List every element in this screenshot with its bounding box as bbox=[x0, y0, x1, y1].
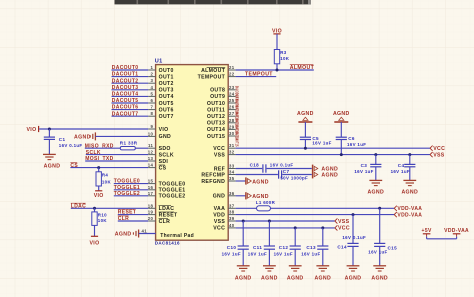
resistor R3 bbox=[274, 34, 279, 70]
svg-text:VCC: VCC bbox=[213, 146, 225, 152]
svg-text:21: 21 bbox=[229, 65, 235, 70]
wire TOGGLE1 bbox=[114, 189, 148, 191]
svg-text:28: 28 bbox=[229, 118, 235, 123]
svg-text:36: 36 bbox=[229, 191, 235, 196]
svg-text:2: 2 bbox=[150, 72, 153, 77]
wire TOGGLE0 bbox=[114, 183, 148, 185]
svg-text:REFGND: REFGND bbox=[201, 179, 225, 185]
svg-text:OUT8: OUT8 bbox=[210, 88, 225, 94]
svg-text:VCC: VCC bbox=[213, 226, 225, 232]
wire VSS (pin 32) bbox=[236, 154, 430, 156]
node CLR bbox=[118, 216, 129, 222]
svg-text:9: 9 bbox=[150, 124, 153, 129]
svg-text:DACOUT15: DACOUT15 bbox=[235, 132, 240, 147]
ground AGND at C18 bbox=[313, 165, 318, 179]
svg-text:AGND: AGND bbox=[252, 194, 269, 200]
C12 labels bbox=[274, 245, 293, 256]
node RESET bbox=[118, 210, 136, 216]
svg-text:R3: R3 bbox=[280, 50, 287, 55]
node VCC (right) bbox=[430, 146, 445, 152]
node TOGGLE2 bbox=[114, 191, 140, 197]
AGND label below C10 bbox=[235, 275, 252, 281]
svg-text:C4: C4 bbox=[398, 163, 405, 168]
svg-text:16V 1uF: 16V 1uF bbox=[347, 142, 366, 147]
ground AGND at C7 bbox=[314, 172, 318, 176]
svg-text:OUT4: OUT4 bbox=[159, 94, 174, 100]
AGND label above C6 bbox=[333, 111, 350, 117]
svg-text:25: 25 bbox=[229, 98, 235, 103]
node VSS (mid) bbox=[335, 218, 350, 224]
svg-text:REFCMP: REFCMP bbox=[201, 172, 225, 178]
junction C6 on VSS bbox=[340, 153, 343, 156]
C5 labels bbox=[312, 136, 331, 146]
wire DACOUT5 bbox=[112, 102, 149, 104]
svg-text:DACOUT1: DACOUT1 bbox=[112, 72, 139, 78]
svg-text:4: 4 bbox=[150, 85, 153, 90]
svg-text:10: 10 bbox=[148, 131, 154, 136]
wire DACOUT7 bbox=[112, 115, 149, 117]
node VCC (mid) bbox=[335, 225, 350, 231]
svg-text:AGND: AGND bbox=[401, 189, 418, 195]
junction C15 tap bbox=[378, 207, 381, 210]
C4 labels bbox=[391, 163, 410, 174]
wire REF (pin 33) bbox=[236, 168, 263, 170]
node MISO_RXD bbox=[85, 144, 114, 150]
junction C13 tap bbox=[321, 226, 324, 229]
AGND label pin 10 bbox=[74, 135, 91, 141]
wire RESET bbox=[118, 214, 148, 216]
svg-text:AGND: AGND bbox=[367, 189, 384, 195]
svg-text:AGND: AGND bbox=[321, 172, 338, 178]
svg-text:DACOUT0: DACOUT0 bbox=[112, 65, 139, 71]
AGND label pin 41 bbox=[115, 231, 132, 237]
power port VIO (top) bbox=[272, 28, 282, 34]
svg-text:ALMOUT: ALMOUT bbox=[201, 68, 226, 74]
capacitor C7 (series to AGND) bbox=[279, 170, 312, 178]
svg-text:20: 20 bbox=[148, 216, 154, 221]
svg-text:DACOUT7: DACOUT7 bbox=[112, 111, 139, 117]
AGND label above C5 bbox=[297, 111, 314, 117]
svg-text:26: 26 bbox=[229, 105, 235, 110]
junction R3 bottom bbox=[276, 69, 279, 72]
svg-text:38: 38 bbox=[229, 210, 235, 215]
U1 left pin stubs and numbers bbox=[142, 65, 156, 234]
svg-text:OUT2: OUT2 bbox=[159, 81, 174, 87]
svg-text:GND: GND bbox=[213, 194, 225, 200]
junction C1 tap bbox=[48, 128, 51, 131]
svg-text:R1 33R: R1 33R bbox=[120, 140, 138, 145]
capacitor C1 bbox=[44, 129, 55, 154]
svg-text:VSS: VSS bbox=[433, 152, 445, 158]
capacitor C6 bbox=[334, 117, 348, 154]
svg-text:11: 11 bbox=[148, 143, 154, 148]
node DACOUT4 bbox=[112, 92, 139, 98]
wire TOGGLE2 bbox=[114, 195, 148, 197]
node CS bbox=[70, 163, 78, 169]
svg-text:AGND: AGND bbox=[371, 275, 388, 281]
node DACOUT0 bbox=[112, 65, 139, 71]
svg-text:16V 1uF: 16V 1uF bbox=[312, 140, 331, 145]
svg-text:33: 33 bbox=[229, 164, 235, 169]
resistor R1 bbox=[120, 147, 135, 150]
R3 labels bbox=[280, 50, 290, 61]
wire GND (pin 36) bbox=[236, 195, 246, 197]
C6 labels bbox=[347, 136, 366, 147]
junction C12 tap bbox=[294, 226, 297, 229]
svg-text:TOGGLE2: TOGGLE2 bbox=[159, 194, 186, 200]
svg-text:TEMPOUT: TEMPOUT bbox=[198, 74, 226, 80]
capacitor C13 bbox=[316, 228, 329, 271]
svg-text:OUT9: OUT9 bbox=[210, 94, 225, 100]
wire VCC (pin 40) bbox=[236, 227, 335, 229]
AGND label below C12 bbox=[287, 275, 304, 281]
capacitor C3 bbox=[369, 153, 382, 186]
C11 labels bbox=[248, 245, 267, 256]
node DACOUT2 bbox=[112, 78, 139, 84]
U1 left pin names bbox=[159, 68, 186, 225]
svg-text:DACOUT4: DACOUT4 bbox=[112, 92, 139, 98]
svg-text:13: 13 bbox=[148, 156, 154, 161]
svg-text:19: 19 bbox=[148, 210, 154, 215]
svg-text:16: 16 bbox=[148, 185, 154, 190]
svg-text:VIO: VIO bbox=[90, 241, 100, 247]
svg-text:7: 7 bbox=[150, 105, 153, 110]
svg-text:50V 1000pF: 50V 1000pF bbox=[280, 176, 308, 181]
C15 labels bbox=[368, 245, 397, 254]
toolbar fragment (top edge) bbox=[115, 0, 312, 4]
svg-text:C10: C10 bbox=[227, 245, 237, 250]
svg-text:32: 32 bbox=[229, 150, 235, 155]
wire DACOUT2 bbox=[112, 82, 149, 84]
svg-text:OUT6: OUT6 bbox=[159, 107, 174, 113]
svg-text:C12: C12 bbox=[279, 245, 289, 250]
U1 right pin names bbox=[198, 67, 226, 231]
node TOGGLE0 bbox=[114, 179, 140, 185]
C7 labels bbox=[280, 169, 308, 180]
node VDD-VAA (on VAA) bbox=[394, 206, 422, 212]
ground AGND at pin 36 bbox=[246, 192, 251, 199]
power port VIO (left) bbox=[27, 126, 39, 133]
svg-text:C6: C6 bbox=[348, 136, 355, 141]
wire DACOUT0 bbox=[112, 69, 149, 71]
R10 labels bbox=[98, 212, 108, 223]
svg-text:RESET: RESET bbox=[159, 212, 178, 218]
wire VAA (pin 37) bbox=[236, 207, 395, 209]
svg-text:15: 15 bbox=[148, 179, 154, 184]
AGND label below C14 bbox=[345, 275, 362, 281]
svg-text:18: 18 bbox=[148, 203, 154, 208]
AGND label below C4 bbox=[401, 189, 418, 195]
wire LDAC bbox=[71, 207, 148, 209]
ground AGND at pin 35 bbox=[246, 177, 251, 184]
svg-text:17: 17 bbox=[148, 191, 154, 196]
svg-text:VCC: VCC bbox=[338, 226, 350, 232]
svg-text:AGND: AGND bbox=[333, 111, 350, 117]
svg-text:SDO: SDO bbox=[159, 146, 171, 152]
svg-text:40: 40 bbox=[229, 223, 235, 228]
C13 labels bbox=[301, 245, 320, 256]
svg-text:16V 1uF: 16V 1uF bbox=[274, 252, 293, 257]
wire SCLK bbox=[86, 154, 148, 156]
svg-text:3: 3 bbox=[150, 78, 153, 83]
svg-text:VIO: VIO bbox=[27, 127, 37, 133]
power port +5V bbox=[422, 228, 432, 236]
node ALMOUT bbox=[290, 65, 315, 71]
svg-text:OUT0: OUT0 bbox=[159, 68, 174, 74]
svg-text:C7: C7 bbox=[283, 169, 290, 174]
node MOSI_TXD bbox=[85, 156, 113, 162]
C18 labels bbox=[250, 162, 294, 167]
wire VCC (pin 31) bbox=[236, 147, 430, 149]
node DACOUT5 bbox=[112, 98, 139, 104]
svg-text:OUT14: OUT14 bbox=[207, 127, 225, 133]
U1 right pin stubs and numbers bbox=[228, 65, 235, 228]
svg-text:16V 1uF: 16V 1uF bbox=[354, 169, 373, 174]
capacitor C11 bbox=[263, 221, 276, 271]
svg-text:R4: R4 bbox=[102, 172, 109, 177]
svg-text:16V 0.1uF: 16V 0.1uF bbox=[59, 143, 83, 148]
svg-text:U1: U1 bbox=[155, 59, 163, 65]
svg-text:VDD-VAA: VDD-VAA bbox=[397, 212, 422, 218]
svg-text:OUT11: OUT11 bbox=[207, 107, 225, 113]
svg-text:VIO: VIO bbox=[94, 193, 104, 199]
svg-text:C13: C13 bbox=[306, 245, 316, 250]
capacitor C5 bbox=[298, 117, 312, 148]
wire +5V to VDD-VAA bbox=[427, 237, 457, 239]
svg-text:AGND: AGND bbox=[235, 275, 252, 281]
svg-text:10K: 10K bbox=[102, 180, 112, 185]
svg-text:DACOUT6: DACOUT6 bbox=[112, 105, 139, 111]
svg-text:10K: 10K bbox=[280, 56, 290, 61]
svg-text:39: 39 bbox=[229, 216, 235, 221]
AGND label at C18 bbox=[321, 166, 338, 172]
svg-text:DAC81416: DAC81416 bbox=[155, 241, 180, 246]
C3 labels bbox=[354, 163, 373, 174]
wire VSS (pin 39) bbox=[236, 220, 335, 222]
svg-text:16V 1uF: 16V 1uF bbox=[248, 252, 267, 257]
junction R10 top bbox=[93, 207, 96, 210]
svg-text:CS: CS bbox=[159, 165, 167, 171]
resistor R10 pull-up bbox=[92, 208, 97, 236]
junction R4 top bbox=[97, 166, 100, 169]
svg-text:OUT3: OUT3 bbox=[159, 88, 174, 94]
svg-text:6: 6 bbox=[150, 98, 153, 103]
svg-text:27: 27 bbox=[229, 111, 235, 116]
svg-text:16V 0.1uF: 16V 0.1uF bbox=[342, 235, 366, 240]
capacitor C12 bbox=[289, 228, 302, 271]
svg-text:Thermal Pad: Thermal Pad bbox=[160, 233, 194, 239]
svg-text:5: 5 bbox=[150, 91, 153, 96]
svg-text:R10: R10 bbox=[98, 212, 107, 217]
AGND label below C1 bbox=[44, 163, 61, 169]
svg-text:OUT15: OUT15 bbox=[207, 134, 225, 140]
svg-text:DACOUT5: DACOUT5 bbox=[112, 98, 139, 104]
ground AGND at thermal pad pin 41 bbox=[133, 230, 155, 238]
svg-text:VSS: VSS bbox=[214, 219, 226, 225]
wire CS bbox=[70, 167, 148, 169]
AGND label below C11 bbox=[261, 275, 278, 281]
capacitor C4 bbox=[403, 153, 416, 186]
wire MISO_RXD bbox=[85, 147, 148, 149]
svg-text:VAA: VAA bbox=[214, 206, 226, 212]
svg-text:VDD-VAA: VDD-VAA bbox=[397, 206, 422, 212]
svg-text:C18: C18 bbox=[250, 163, 260, 168]
AGND label below C13 bbox=[314, 275, 331, 281]
svg-text:OUT7: OUT7 bbox=[159, 114, 174, 120]
svg-text:L1 600R: L1 600R bbox=[256, 200, 276, 205]
wire REFGND (pin 35) bbox=[236, 180, 246, 182]
junction C5 on VCC bbox=[304, 147, 307, 150]
svg-text:AGND: AGND bbox=[314, 275, 331, 281]
svg-text:ALMOUT: ALMOUT bbox=[290, 65, 315, 71]
svg-text:OUT5: OUT5 bbox=[159, 101, 174, 107]
wire ALMOUT bbox=[236, 69, 314, 71]
wire DACOUT1 bbox=[112, 76, 149, 78]
node LDAC bbox=[71, 203, 86, 209]
svg-text:29: 29 bbox=[229, 124, 235, 129]
svg-text:14: 14 bbox=[148, 163, 154, 168]
node TEMPOUT bbox=[245, 72, 273, 78]
power port VDD-VAA (bottom right) bbox=[444, 228, 469, 236]
value DAC81416 bbox=[155, 241, 180, 246]
svg-text:C11: C11 bbox=[253, 245, 262, 250]
C1 labels bbox=[59, 137, 83, 148]
svg-text:C15: C15 bbox=[388, 245, 398, 250]
junction C10 tap bbox=[242, 220, 245, 223]
ground AGND at pin 10 bbox=[90, 132, 148, 140]
power port VIO below R4 bbox=[94, 191, 104, 199]
svg-text:OUT12: OUT12 bbox=[207, 114, 225, 120]
svg-text:AGND: AGND bbox=[297, 111, 314, 117]
svg-text:VCC: VCC bbox=[433, 146, 445, 152]
svg-text:C1: C1 bbox=[59, 137, 66, 142]
op-amp U1 DAC81416 body bbox=[156, 65, 229, 241]
svg-text:CLR: CLR bbox=[159, 219, 171, 225]
node DACOUT7 bbox=[112, 111, 139, 117]
node SCLK bbox=[86, 150, 101, 156]
AGND label at C7 bbox=[321, 172, 338, 178]
svg-text:AGND: AGND bbox=[287, 275, 304, 281]
svg-text:37: 37 bbox=[229, 203, 235, 208]
svg-text:31: 31 bbox=[229, 143, 235, 148]
wire VDD (pin 38) bbox=[236, 214, 395, 216]
svg-text:12: 12 bbox=[148, 150, 154, 155]
svg-text:22: 22 bbox=[229, 72, 235, 77]
svg-text:16V 1uF: 16V 1uF bbox=[301, 252, 320, 257]
svg-text:23: 23 bbox=[229, 85, 235, 90]
node DACOUT3 bbox=[112, 85, 139, 91]
inductor L1 bbox=[257, 206, 271, 211]
svg-text:SDI: SDI bbox=[159, 159, 169, 165]
node TOGGLE1 bbox=[114, 185, 140, 191]
AGND label pin 35 bbox=[252, 180, 269, 186]
capacitor C18 (series to AGND) bbox=[263, 164, 312, 172]
wire DACOUT6 bbox=[112, 109, 149, 111]
svg-text:AGND: AGND bbox=[74, 135, 91, 141]
svg-text:16V 1uF: 16V 1uF bbox=[368, 250, 387, 255]
node DACOUT1 bbox=[112, 72, 139, 78]
svg-text:TEMPOUT: TEMPOUT bbox=[245, 72, 273, 78]
AGND label below C3 bbox=[367, 189, 384, 195]
svg-text:1: 1 bbox=[150, 65, 153, 70]
node DACOUT6 bbox=[112, 105, 139, 111]
svg-text:OUT10: OUT10 bbox=[207, 101, 225, 107]
junction C11 tap bbox=[268, 220, 271, 223]
svg-text:8: 8 bbox=[150, 111, 153, 116]
svg-text:OUT13: OUT13 bbox=[207, 121, 225, 127]
L1 labels bbox=[256, 200, 276, 205]
svg-text:LDAC: LDAC bbox=[159, 206, 175, 212]
wire VIO to pin 9 bbox=[39, 128, 148, 130]
svg-text:VDD: VDD bbox=[213, 212, 225, 218]
pin 41 name Thermal Pad bbox=[160, 233, 194, 239]
svg-text:AGND: AGND bbox=[345, 275, 362, 281]
svg-text:DACOUT3: DACOUT3 bbox=[112, 85, 139, 91]
svg-text:OUT1: OUT1 bbox=[159, 74, 174, 80]
svg-text:AGND: AGND bbox=[44, 163, 61, 169]
capacitor C14 bbox=[347, 215, 360, 271]
resistor R4 pull-up bbox=[96, 168, 101, 191]
wire REFCMP (pin 34) bbox=[236, 174, 278, 176]
svg-text:C14: C14 bbox=[337, 244, 347, 249]
C10 labels bbox=[222, 245, 241, 256]
svg-text:VSS: VSS bbox=[338, 219, 350, 225]
svg-text:30: 30 bbox=[229, 131, 235, 136]
R1 labels bbox=[120, 140, 138, 145]
svg-text:16V 1uF: 16V 1uF bbox=[222, 252, 241, 257]
svg-text:TOGGLE0: TOGGLE0 bbox=[159, 181, 186, 187]
C14 labels bbox=[337, 235, 366, 250]
node VSS (right) bbox=[430, 152, 445, 158]
svg-text:35: 35 bbox=[229, 176, 235, 181]
svg-text:C3: C3 bbox=[361, 163, 368, 168]
svg-text:10K: 10K bbox=[98, 218, 108, 223]
junction C14 tap bbox=[352, 213, 355, 216]
svg-text:16V 1uF: 16V 1uF bbox=[391, 169, 410, 174]
svg-text:SCLK: SCLK bbox=[159, 152, 174, 158]
nodes DACOUT8-15 (rotated labels) bbox=[235, 86, 240, 147]
wire TEMPOUT bbox=[236, 76, 277, 78]
svg-text:GND: GND bbox=[159, 134, 171, 140]
designator U1 bbox=[155, 59, 163, 65]
svg-text:AGND: AGND bbox=[252, 180, 269, 186]
power port VIO below R10 bbox=[90, 236, 100, 246]
svg-text:34: 34 bbox=[229, 170, 235, 175]
svg-text:41: 41 bbox=[142, 228, 148, 233]
wire DACOUT4 bbox=[112, 95, 149, 97]
svg-text:24: 24 bbox=[229, 91, 235, 96]
wire DACOUT3 bbox=[112, 89, 149, 91]
AGND label below C15 bbox=[371, 275, 388, 281]
svg-text:VSS: VSS bbox=[214, 152, 226, 158]
svg-text:16V 0.1uF: 16V 0.1uF bbox=[270, 162, 294, 167]
svg-text:VIO: VIO bbox=[159, 127, 169, 133]
wire CLR bbox=[118, 220, 148, 222]
svg-text:DACOUT2: DACOUT2 bbox=[112, 78, 139, 84]
capacitor C15 bbox=[373, 208, 386, 271]
wire MOSI_TXD bbox=[85, 160, 148, 162]
svg-text:AGND: AGND bbox=[115, 231, 132, 237]
AGND label pin 36 bbox=[252, 194, 269, 200]
capacitor C10 bbox=[237, 221, 250, 271]
ground AGND below C1 bbox=[43, 154, 56, 159]
R4 labels bbox=[102, 172, 112, 184]
node VDD-VAA (on VDD) bbox=[394, 212, 422, 218]
svg-text:AGND: AGND bbox=[261, 275, 278, 281]
